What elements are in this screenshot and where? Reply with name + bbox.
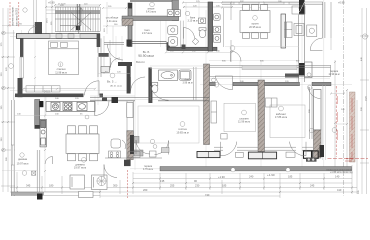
axis grid thin lines verticals (14, 0, 324, 196)
svg-text:+1.90: +1.90 (267, 173, 275, 177)
window in bedroom1 top wall (50, 34, 80, 38)
top dim numbers (60, 1, 282, 8)
door arcs entry from stairwell (108, 45, 124, 68)
room label entry hall top (146, 2, 156, 13)
svg-text:2.41 кв.м: 2.41 кв.м (107, 20, 118, 23)
door arcs wc (184, 28, 195, 39)
svg-text:290: 290 (1, 137, 3, 141)
door arc kitchen double (95, 101, 110, 116)
door arc living balcony right (310, 38, 322, 50)
svg-text:1620: 1620 (366, 95, 368, 101)
living right exterior wall (323, 2, 325, 38)
living balcony door arc (136, 140, 169, 155)
shaft black top-right (299, 0, 305, 15)
svg-text:135: 135 (160, 179, 165, 183)
terrace strip outline (210, 65, 331, 76)
kitchen counter lower with stove (105, 151, 162, 158)
corridor wall verticals (98, 38, 101, 77)
svg-text:11.98 кв.м: 11.98 кв.м (55, 71, 67, 74)
right dim tick row (331, 93, 344, 95)
svg-text:11.90 кв.м: 11.90 кв.м (328, 73, 339, 76)
svg-text:410: 410 (337, 188, 342, 192)
gray wall band right of balcony door (312, 82, 331, 86)
living south wall dark bar (130, 135, 134, 154)
right inner dim ticks (334, 61, 348, 171)
svg-text:(81.01 кв.м): (81.01 кв.м) (110, 86, 122, 88)
top dim ticks (45, 2, 301, 9)
svg-text:сваляне на парап.: сваляне на парап. (13, 6, 15, 26)
hatched wall R vertical (258, 80, 265, 152)
dimension rows bottom (10, 100, 357, 198)
svg-text:6.41 кв.м: 6.41 кв.м (146, 10, 156, 13)
wc bottom dark wall (131, 42, 167, 44)
hall-kitchen separating wall (90, 98, 209, 101)
living left wall thin (127, 101, 134, 135)
armchair center (111, 139, 126, 149)
far right hatched band (350, 92, 356, 162)
marker circles balcony (150, 139, 155, 144)
property dash-dot line right (343, 0, 345, 196)
window mullions top wall (234, 2, 289, 4)
dimension numbers bottom (26, 175, 342, 197)
main horizontal wall under stairs (16, 34, 100, 38)
stair walk arrow (60, 8, 83, 26)
svg-text:20.95 кв.м: 20.95 кв.м (249, 26, 261, 29)
room label bath2 (185, 11, 198, 22)
wardrobe room3 (266, 98, 278, 107)
svg-text:241.5: 241.5 (44, 91, 50, 93)
corridor dark block low (124, 160, 131, 166)
svg-text:+0.90: +0.90 (338, 0, 345, 4)
bedroom3 carpet (270, 105, 305, 138)
svg-text:ВхА-Сл: ВхА-Сл (136, 61, 145, 64)
kitchen counter left vertical (40, 119, 46, 147)
room label wc (142, 29, 152, 35)
stair top wall band (55, 10, 100, 14)
grid marker circle left (9, 64, 14, 69)
stair treads (56, 7, 101, 32)
entry hall wall L dark (118, 62, 132, 66)
label room3 (275, 106, 287, 119)
marker circle terrace (307, 85, 311, 89)
left exterior wall lower wing (12, 100, 15, 196)
entry threshold lines (104, 43, 124, 45)
living bottom wall stub (285, 74, 299, 78)
faint line above terrace strip (225, 46, 299, 48)
bedroom1 bottom wall right stub (100, 94, 104, 98)
dresser bedroom1 (26, 86, 60, 92)
grid marker circle 7 right (362, 34, 367, 39)
duct next to shaft (305, 62, 312, 78)
dim row under baths (166, 51, 232, 53)
wall line pair top-left (34, 0, 36, 34)
bottom band wall (terrace edge) (160, 167, 352, 171)
svg-text:300: 300 (113, 184, 118, 188)
stair band extension lines (46, 10, 55, 14)
column marker with X (32, 171, 36, 175)
bed bedroom1 (49, 41, 79, 75)
stair column wall dark (128, 3, 132, 47)
top dimension rows (46, 0, 300, 74)
svg-text:3.10 кв.м: 3.10 кв.м (188, 19, 198, 22)
right margin numbers (361, 57, 368, 111)
door arc bath (hall side) (131, 77, 146, 92)
red dashed annotation vertical (335, 86, 337, 157)
wall block left of stairs (35, 22, 42, 37)
kitchen dark wall left (35, 100, 40, 129)
stair top dim row (55, 4, 100, 6)
kitchen black block (39, 101, 43, 107)
svg-text:375: 375 (1, 42, 3, 46)
svg-text:Вх. 5 →: Вх. 5 → (107, 80, 117, 84)
terrace furniture row (286, 152, 295, 157)
svg-text:17.86 кв.м: 17.86 кв.м (275, 115, 287, 119)
svg-text:11.96 кв.м: 11.96 кв.м (238, 120, 250, 124)
marker circle bottom-left (22, 171, 27, 176)
svg-text:180: 180 (49, 184, 54, 188)
wall below stairs right corner (97, 34, 101, 47)
small dim text rows interior (17, 61, 345, 116)
label terrace mid (328, 70, 339, 76)
svg-text:Вх. Б: Вх. Б (143, 50, 150, 54)
small dark block wall end (182, 45, 186, 50)
svg-text:19.83 кв.м: 19.83 кв.м (176, 130, 188, 134)
left margin numbers (1, 42, 8, 161)
door arc stairs side (28, 27, 36, 35)
shaft gray wall mid (299, 63, 305, 76)
red text row terrace right (326, 168, 353, 174)
bbq black furniture (304, 151, 319, 162)
svg-text:2.47 кв.м: 2.47 кв.м (142, 32, 152, 35)
label kitchen bottom-left (17, 153, 29, 166)
terrace inner beam (242, 65, 297, 69)
svg-text:365: 365 (1, 105, 3, 109)
wall between baths dark (208, 2, 213, 51)
marker circle kitchen (85, 115, 89, 119)
dim row above dining (222, 7, 299, 9)
marker circle band (214, 83, 219, 88)
bedroom1 left exterior wall lower (18, 78, 23, 97)
label kitchen-dining top-right (249, 15, 261, 28)
axis grid thin lines horizontals (10, 37, 352, 169)
svg-text:3.96 кв.м: 3.96 кв.м (183, 82, 193, 85)
pier continuation line (78, 26, 80, 35)
svg-text:255: 255 (170, 184, 175, 188)
svg-text:90.90 кв.м: 90.90 кв.м (138, 54, 154, 58)
svg-text:нов отвор 90/250: нов отвор 90/250 (17, 7, 19, 26)
svg-text:4.76 кв.м: 4.76 кв.м (143, 168, 153, 171)
dim line top-left (2, 24, 34, 26)
main gray wall band center (210, 82, 216, 86)
bed bedroom2 (224, 103, 256, 131)
svg-text:185: 185 (222, 184, 227, 188)
window left wall lower wing (11, 145, 14, 165)
label dnevna (81, 157, 86, 162)
bedroom1 left exterior wall upper (20, 38, 23, 57)
terrace edge thin line (133, 172, 352, 174)
bath2 bottom dark wall (168, 47, 217, 50)
hatched column below duct (314, 130, 322, 158)
black wall pier top-left (77, 4, 80, 26)
svg-text:740: 740 (205, 193, 210, 197)
big area label (136, 50, 154, 64)
door arc bedroom2 terrace (221, 142, 307, 156)
svg-text:дневна: дневна (18, 158, 27, 161)
bedroom1 interior dim line (24, 88, 96, 90)
plant balcony (97, 176, 106, 185)
svg-text:+0.90: +0.90 (48, 0, 55, 4)
bath right wall thin (193, 67, 196, 100)
bedroom2 bottom thin walls (214, 147, 313, 150)
svg-text:19.97 кв.м: 19.97 кв.м (17, 162, 29, 165)
marker circle top-left (23, 8, 27, 12)
bottom-left exterior wall (12, 192, 44, 195)
wall Q T-foot dark (197, 152, 220, 158)
stair cross X (71, 13, 91, 31)
bottom-left black pier (37, 194, 43, 200)
corridor duct (127, 103, 133, 118)
extra faint verticals center (46, 2, 297, 116)
label balcony bottom (143, 165, 153, 171)
door arc dining hallway (45, 157, 53, 165)
label bath (183, 78, 193, 85)
stairs (47, 7, 101, 32)
svg-text:245: 245 (310, 184, 315, 188)
svg-text:140: 140 (335, 175, 340, 179)
dimension lines right edge (331, 2, 369, 194)
left edge grid circles (2, 31, 6, 35)
grid marker circle right mid (332, 128, 337, 133)
label bedroom2 (238, 110, 250, 124)
svg-text:230: 230 (195, 184, 200, 188)
svg-text:185: 185 (288, 175, 293, 179)
svg-text:240: 240 (249, 175, 254, 179)
dimension ticks bottom (16, 178, 353, 194)
bedroom1 bottom wall (15, 94, 84, 98)
top room walls gray (130, 0, 179, 2)
stair rails (55, 6, 100, 8)
door arc kitchen balcony (104, 165, 117, 178)
balcony rail top right (330, 2, 332, 38)
dim vertical left wing (44, 96, 46, 192)
corridor wall jog (101, 66, 110, 72)
dim vertical bedroom1 (34, 40, 36, 88)
thin wall lines right of duct (323, 85, 326, 160)
marker circle hall (110, 73, 115, 78)
bath2 fixtures (192, 14, 220, 45)
svg-text:330: 330 (1, 72, 3, 76)
stair top numbers (58, 3, 88, 5)
terrace benches small (162, 148, 170, 153)
interior dim thin lines (14, 66, 204, 116)
right duct narrow (310, 87, 312, 139)
vestibule cross wall (99, 53, 109, 57)
corridor hatch block (127, 131, 133, 160)
room label bedroom1 (55, 62, 67, 75)
living room carpet (138, 106, 199, 143)
column block hall (112, 97, 119, 103)
kitchen counter top (46, 102, 95, 112)
table bottom-left dining (66, 126, 107, 198)
dimension line left column (1, 8, 15, 192)
door arc room3 terrace (308, 87, 320, 99)
red annotation left (10, 2, 19, 27)
top room fixtures (167, 10, 180, 16)
wc1 fixtures (168, 26, 178, 46)
red dashed vertical bottom-left (127, 170, 129, 198)
shaft walls thin (299, 15, 305, 64)
wc right thin wall (181, 2, 231, 62)
svg-text:гостна: гостна (178, 127, 187, 131)
bath left wall dark (148, 68, 151, 86)
svg-text:+1.90: +1.90 (218, 175, 225, 179)
top exterior wall right wing (222, 2, 323, 4)
circles on terrace band (231, 168, 235, 172)
wall dining-living (281, 14, 286, 48)
red dashes in far right band (345, 98, 354, 161)
door arc terrace top-right room (230, 46, 241, 62)
bedroom1 window left (20, 57, 23, 78)
bath toilet (152, 83, 158, 93)
bath tub (159, 70, 192, 81)
svg-text:19.97 кв.м: 19.97 кв.м (74, 166, 86, 170)
svg-text:260: 260 (143, 188, 148, 192)
door arc bath interior (151, 86, 169, 100)
kitchen-dining divider wall (37, 150, 40, 192)
dimension ticks left (2, 32, 9, 151)
dining table top-right (240, 5, 270, 39)
wardrobe bedroom2 (211, 101, 227, 139)
dim strings left of top rooms (103, 2, 126, 45)
svg-text:+1.90 кота готов под: +1.90 кота готов под (330, 171, 353, 174)
room label stairwell (106, 16, 119, 23)
marker circle duct (309, 128, 313, 132)
right wall black block (320, 145, 325, 157)
door arc bedroom1 (85, 81, 100, 96)
label living (176, 122, 188, 135)
living furniture top-right (285, 6, 317, 38)
door arc hall to terrace (215, 76, 232, 90)
red line terrace right (328, 157, 369, 159)
hatched wall Q vertical (204, 64, 210, 145)
bench blocks (134, 136, 139, 143)
svg-text:345: 345 (26, 184, 31, 188)
